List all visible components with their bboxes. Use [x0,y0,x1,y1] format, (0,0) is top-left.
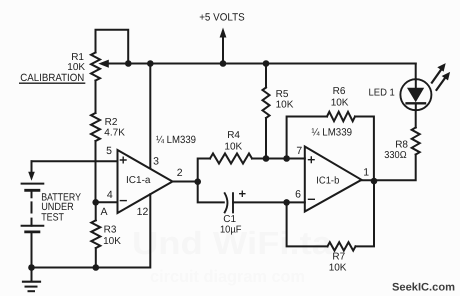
svg-text:6: 6 [295,188,301,200]
svg-text:C1: C1 [223,214,236,225]
svg-text:10K: 10K [331,97,349,108]
svg-text:+5 VOLTS: +5 VOLTS [199,12,245,24]
svg-text:10K: 10K [276,100,294,111]
svg-text:330Ω: 330Ω [384,150,407,161]
svg-text:1: 1 [363,166,369,178]
svg-text:R5: R5 [276,89,289,100]
svg-text:LED 1: LED 1 [369,88,396,99]
svg-text:2: 2 [177,167,183,179]
svg-text:10K: 10K [103,236,121,247]
svg-text:5: 5 [106,145,112,157]
svg-text:TEST: TEST [41,212,64,224]
svg-text:7: 7 [296,145,302,157]
svg-text:10K: 10K [329,263,347,274]
svg-text:A: A [100,206,107,218]
svg-text:R3: R3 [104,224,117,235]
svg-text:R6: R6 [333,86,346,97]
svg-text:circuit diagram com: circuit diagram com [150,267,305,286]
svg-text:4: 4 [107,189,113,201]
svg-text:R8: R8 [395,139,408,150]
svg-text:¼ LM339: ¼ LM339 [312,127,353,139]
svg-text:R4: R4 [227,130,240,141]
svg-text:3: 3 [153,155,159,167]
svg-text:CALIBRATION: CALIBRATION [20,72,84,84]
svg-text:IC1-b: IC1-b [316,175,339,186]
svg-text:12: 12 [137,206,149,218]
svg-text:4.7K: 4.7K [104,128,125,139]
svg-text:IC1-a: IC1-a [126,175,151,186]
svg-text:10µF: 10µF [220,224,242,235]
svg-text:R2: R2 [105,117,118,128]
svg-text:¼ LM339: ¼ LM339 [156,134,196,146]
svg-text:SeekIC.com: SeekIC.com [392,282,455,294]
svg-text:10K: 10K [224,141,242,152]
svg-text:R7: R7 [332,251,345,262]
